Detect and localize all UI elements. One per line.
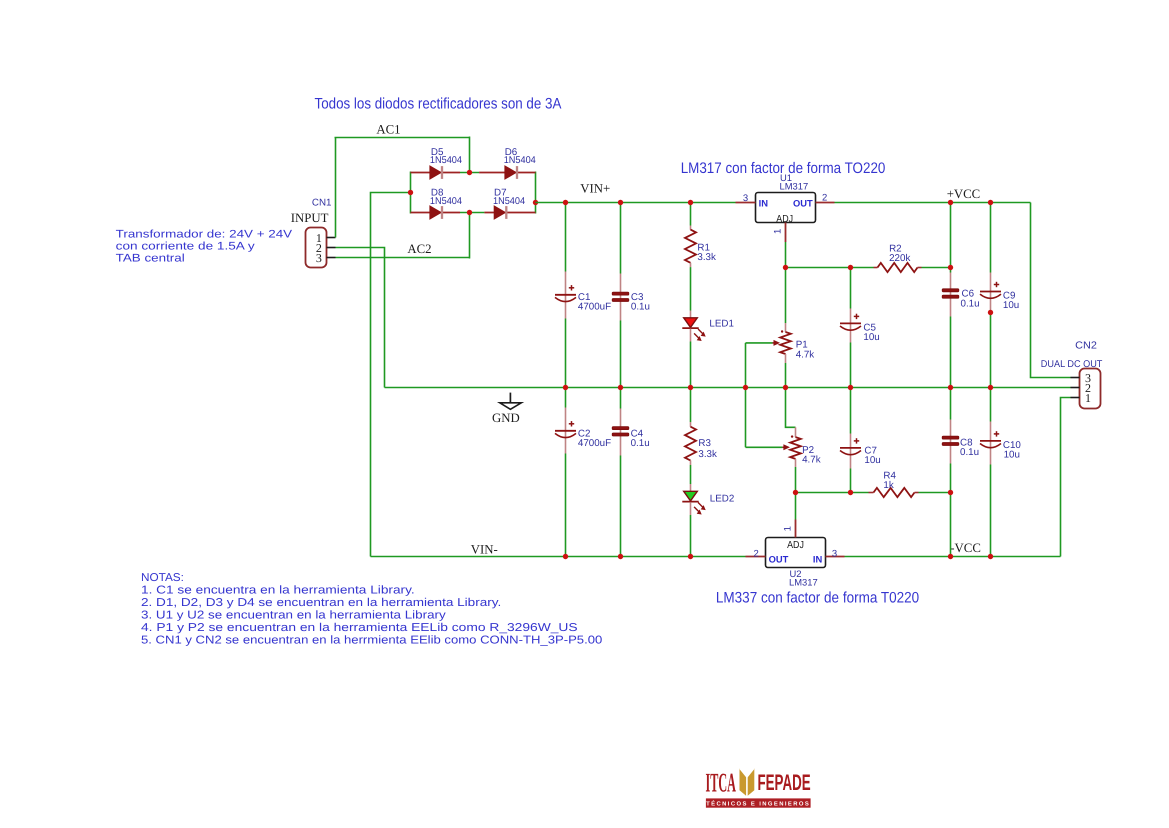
ground symbol (500, 393, 522, 410)
svg-text:4700uF: 4700uF (578, 438, 611, 449)
svg-text:3.3k: 3.3k (698, 449, 717, 460)
wire R2 to +VCC column (922, 267, 951, 269)
wire C2 top (565, 388, 567, 408)
wire CN1.1 up to AC1 (335, 138, 337, 238)
pin R1 bottom (690, 263, 692, 267)
svg-text:CN2: CN2 (1075, 341, 1097, 352)
svg-text:0.1u: 0.1u (631, 301, 650, 312)
wire U1 ADJ down (785, 242, 787, 268)
pin R3 bottom (690, 461, 692, 466)
svg-text:3: 3 (316, 251, 322, 265)
svg-text:10u: 10u (1004, 450, 1020, 461)
wire R3 to LED2 (690, 465, 692, 484)
pin P2 top (795, 427, 797, 437)
wiper P1 (746, 340, 781, 346)
svg-text:1. C1 se encuentra en la herra: 1. C1 se encuentra en la herramienta Lib… (141, 584, 415, 596)
wire bridge right side (535, 172, 537, 214)
wire C7 bottom (850, 469, 852, 493)
wire VIN+ rail left (536, 202, 736, 204)
wire P1 bottom to GND (785, 363, 787, 388)
svg-text:4. P1 y P2 se encuentran en la: 4. P1 y P2 se encuentran en la herramien… (141, 622, 578, 634)
wire AC2 up to bridge (469, 213, 471, 259)
connector CN2 (1071, 369, 1101, 409)
pin U2.3 IN (826, 556, 845, 558)
svg-text:OUT: OUT (769, 553, 789, 564)
wire C6 top (950, 203, 952, 273)
junction GND rail (988, 385, 993, 390)
pin P1 bottom (785, 354, 787, 363)
pin C3 (620, 274, 622, 321)
resistor R1 (685, 230, 696, 263)
capacitor C1 (555, 285, 576, 301)
wire +VCC to CN2.3 (1031, 203, 1071, 378)
junction bridge plus (533, 200, 538, 205)
pin P2 bottom (795, 459, 797, 467)
wire +VCC rail (835, 202, 1031, 204)
pin C7 (850, 434, 852, 469)
junction ADJ2 P2 (793, 490, 798, 495)
op-amp U1 LM317 box (756, 193, 816, 226)
svg-text:Todos los diodos rectificadore: Todos los diodos rectificadores son de 3… (315, 96, 563, 113)
wire ADJ1 horizontal (786, 267, 874, 269)
wire bridge minus down to VIN- (371, 193, 411, 557)
capacitor C9 (980, 282, 1001, 299)
wire AC1 node top (460, 172, 479, 174)
junction GND rail (563, 385, 568, 390)
wire C3 top (620, 203, 622, 274)
svg-text:1k: 1k (883, 480, 893, 491)
wire ADJ1 down to P1 (785, 268, 787, 324)
junction ADJ2 C7 (848, 490, 853, 495)
pin U1.3 IN (736, 202, 756, 204)
capacitor C7 (840, 438, 861, 455)
potentiometer P1 (780, 332, 791, 354)
svg-text:NOTAS:: NOTAS: (141, 572, 184, 584)
svg-text:ADJ: ADJ (787, 540, 804, 551)
wire C5 bottom (850, 343, 852, 388)
svg-text:2. D1, D2, D3 y D4 se encuentr: 2. D1, D2, D3 y D4 se encuentran en la h… (141, 597, 501, 609)
diode D5 (430, 166, 442, 179)
pin R2 left (874, 267, 878, 269)
svg-text:10u: 10u (863, 332, 879, 343)
wire bridge left side (410, 172, 412, 214)
wire D8 row (411, 212, 461, 214)
wire AC1 horizontal (335, 137, 470, 139)
wire VIN- up to CN2.1 (1061, 398, 1071, 557)
diode D7 (494, 206, 506, 219)
svg-text:FEPADE: FEPADE (758, 770, 811, 795)
pin C10 (990, 422, 992, 465)
wire LED1 to GND (690, 342, 692, 388)
pin R3 top (690, 422, 692, 427)
svg-text:AC1: AC1 (376, 122, 400, 136)
svg-text:1: 1 (1085, 391, 1091, 405)
svg-text:0.1u: 0.1u (631, 438, 650, 449)
pin R2 right (918, 267, 922, 269)
capacitor C3 (612, 292, 629, 301)
wire C7 top (850, 388, 852, 434)
wire ADJ2 down to U2 (795, 493, 797, 520)
diode D6 (505, 166, 517, 179)
wire C1 bottom (565, 319, 567, 388)
junction VIN- rail (688, 554, 693, 559)
pin R1 top (690, 226, 692, 230)
junction GND rail (948, 385, 953, 390)
svg-text:CN1: CN1 (312, 198, 332, 209)
junction ADJ1 C5 (848, 265, 853, 270)
junction GND rail (783, 385, 788, 390)
junction VIN+ rail (688, 200, 693, 205)
ITCA FEPADE logo (706, 767, 811, 808)
resistor R2 (878, 263, 918, 272)
wire GND to P2 wiper (745, 388, 747, 448)
wire C4 top (620, 388, 622, 409)
svg-text:R3: R3 (698, 438, 711, 449)
pin C4 (620, 409, 622, 456)
wire AC2 horizontal (336, 257, 470, 259)
svg-text:TÉCNICOS E INGENIEROS: TÉCNICOS E INGENIEROS (706, 799, 810, 807)
pin LED2 top (690, 484, 692, 491)
svg-text:5. CN1 y CN2 se encuentran en: 5. CN1 y CN2 se encuentran en la herrmie… (141, 635, 602, 647)
resistor R3 (685, 427, 696, 461)
svg-text:4.7k: 4.7k (802, 454, 821, 465)
junction GND rail (688, 385, 693, 390)
svg-text:4700uF: 4700uF (578, 301, 611, 312)
wire D5 row (411, 172, 461, 174)
svg-text:OUT: OUT (793, 198, 813, 209)
pin U2.2 OUT (746, 556, 766, 558)
svg-text:+VCC: +VCC (947, 187, 981, 201)
svg-text:LED1: LED1 (709, 319, 734, 330)
wire R1 to LED1 (690, 267, 692, 310)
capacitor C6 (942, 289, 959, 298)
svg-text:VIN+: VIN+ (580, 182, 610, 196)
svg-text:LM337 con factor de forma T022: LM337 con factor de forma T0220 (716, 589, 919, 606)
LED LED2 (682, 491, 705, 514)
wire C4 bottom (620, 456, 622, 557)
wire R1 top (690, 203, 692, 226)
svg-text:-VCC: -VCC (950, 541, 981, 555)
svg-text:1N5404: 1N5404 (430, 196, 463, 207)
wire R4 to C8 column (919, 492, 951, 494)
junction VIN+ rail (618, 200, 623, 205)
pin LED2 bottom (690, 502, 692, 515)
op-amp U2 LM337 box (766, 538, 826, 568)
pin U2.1 ADJ (795, 520, 797, 538)
wire GND jog to P2 top (786, 388, 796, 428)
wire P2 bottom to ADJ2 (795, 467, 797, 493)
wire LED2 to VIN- (690, 515, 692, 557)
wire C6 bottom (950, 317, 952, 388)
capacitor C2 (555, 421, 576, 437)
svg-text:GND: GND (492, 411, 520, 425)
svg-text:0.1u: 0.1u (960, 447, 979, 458)
pin C2 (565, 408, 567, 454)
wire VIN- rail left (371, 556, 746, 558)
svg-text:TAB central: TAB central (116, 252, 185, 264)
junction ADJ1 VCC column (948, 265, 953, 270)
svg-text:VIN-: VIN- (471, 543, 498, 557)
note transformer (116, 229, 293, 265)
svg-text:LED2: LED2 (710, 493, 735, 504)
junction VIN- rail (948, 554, 953, 559)
svg-text:1N5404: 1N5404 (493, 196, 526, 207)
junction VIN- rail (563, 554, 568, 559)
wire D6 row (479, 172, 535, 174)
potentiometer P2 (790, 437, 801, 459)
svg-text:2: 2 (822, 193, 827, 204)
svg-text:0.1u: 0.1u (961, 298, 980, 309)
connector CN1 (306, 228, 336, 268)
LED LED1 (682, 318, 705, 341)
pin C6 (950, 273, 952, 317)
svg-text:IN: IN (813, 553, 823, 564)
pin R4 left (869, 492, 874, 494)
junction VIN- rail (988, 554, 993, 559)
junction bridge minus (408, 190, 413, 195)
wire C8 bottom (950, 464, 952, 557)
svg-text:3.3k: 3.3k (697, 252, 716, 263)
svg-text:Transformador de: 24V + 24V: Transformador de: 24V + 24V (116, 229, 293, 241)
svg-text:LM317: LM317 (780, 180, 809, 191)
capacitor C10 (980, 431, 1001, 448)
wire R3 top (690, 388, 692, 423)
wire P1 wiper to GND (745, 343, 747, 388)
svg-text:10u: 10u (864, 455, 880, 466)
svg-text:10u: 10u (1003, 300, 1019, 311)
wire C9 top (990, 203, 992, 273)
wire -VCC rail right (845, 556, 1061, 558)
junction AC2 node (467, 210, 472, 215)
wire AC1 down to bridge (469, 137, 471, 173)
wire GND rail (385, 387, 1071, 389)
capacitor C5 (840, 314, 861, 331)
wire CN1.2 to GND rail (336, 248, 385, 388)
wire C2 bottom (565, 454, 567, 557)
svg-text:1N5404: 1N5404 (504, 155, 537, 166)
svg-text:3. U1 y U2 se encuentran en la: 3. U1 y U2 se encuentran en la herramien… (141, 610, 446, 622)
wire ADJ2 horizontal (796, 492, 869, 494)
svg-text:INPUT: INPUT (291, 211, 329, 225)
wire C10 bottom (990, 465, 992, 557)
pin C5 (850, 309, 852, 343)
pin U1.2 OUT (816, 202, 835, 204)
junction VIN- rail (618, 554, 623, 559)
svg-text:220k: 220k (889, 253, 910, 264)
svg-text:1N5404: 1N5404 (430, 155, 463, 166)
svg-text:4.7k: 4.7k (796, 349, 815, 360)
pin P1 top (785, 323, 787, 332)
svg-text:3: 3 (743, 193, 748, 204)
junction VIN+ rail (948, 200, 953, 205)
wire D7 row (484, 212, 535, 214)
wire AC2 node bottom (460, 212, 484, 214)
junction ADJ1 P1 (783, 265, 788, 270)
capacitor C4 (612, 427, 629, 436)
junction GND rail (618, 385, 623, 390)
wire C10 top (990, 388, 992, 422)
pin C1 (565, 272, 567, 319)
svg-text:IN: IN (759, 198, 769, 209)
notes list (141, 572, 602, 647)
junction AC1 node (467, 170, 472, 175)
pin U1.1 ADJ (785, 223, 787, 243)
resistor R4 (874, 488, 915, 497)
pin C9 (990, 273, 992, 312)
svg-text:LM317: LM317 (789, 577, 818, 588)
junction C9 bottom (988, 310, 993, 315)
wire C3 bottom (620, 321, 622, 388)
junction VIN+ rail (563, 200, 568, 205)
wire C5 top (850, 268, 852, 309)
pin C8 (950, 420, 952, 464)
svg-text:2: 2 (753, 548, 758, 559)
junction ADJ2 C8 (948, 490, 953, 495)
pin LED1 bottom (690, 329, 692, 342)
junction VIN+ rail (988, 200, 993, 205)
wire C9 bottom to GND (990, 313, 992, 388)
svg-text:1: 1 (782, 526, 793, 531)
pin LED1 top (690, 311, 692, 318)
pin R4 right (915, 492, 919, 494)
svg-text:AC2: AC2 (407, 242, 431, 256)
svg-text:con corriente de 1.5A y: con corriente de 1.5A y (116, 240, 256, 252)
diode D8 (430, 206, 442, 219)
junction GND rail (743, 385, 748, 390)
capacitor C8 (942, 436, 959, 445)
svg-text:1: 1 (772, 229, 783, 234)
wire C8 top (950, 388, 952, 420)
junction GND rail (848, 385, 853, 390)
svg-text:3: 3 (832, 548, 837, 559)
svg-text:ITCA: ITCA (706, 767, 737, 797)
wiper P2 (746, 444, 791, 450)
wire C1 top (565, 203, 567, 272)
